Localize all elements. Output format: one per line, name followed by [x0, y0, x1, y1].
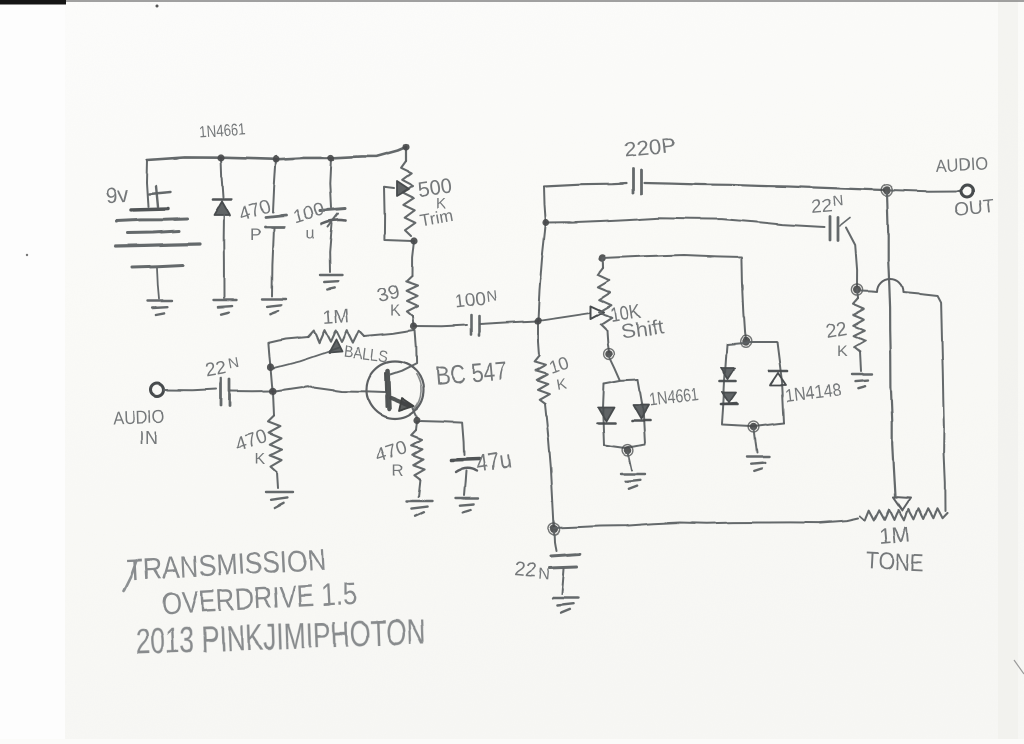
svg-text:AUDIO: AUDIO [112, 406, 165, 428]
svg-text:100: 100 [453, 289, 487, 313]
svg-text:22: 22 [824, 319, 848, 343]
svg-text:R: R [392, 463, 404, 480]
svg-text:u: u [306, 225, 315, 242]
svg-text:22: 22 [514, 558, 538, 582]
svg-text:47u: 47u [474, 446, 512, 478]
svg-text:22: 22 [203, 358, 227, 382]
svg-text:N: N [538, 566, 551, 584]
svg-text:K: K [255, 451, 266, 468]
svg-text:BC 547: BC 547 [434, 355, 508, 391]
svg-text:22: 22 [811, 195, 834, 218]
svg-text:K: K [390, 303, 401, 320]
svg-text:N: N [832, 192, 844, 210]
svg-text:N: N [486, 288, 499, 306]
svg-text:TONE: TONE [866, 547, 924, 577]
svg-text:K: K [837, 343, 848, 360]
svg-text:9v: 9v [104, 182, 130, 209]
svg-text:P: P [250, 225, 261, 244]
svg-text:IN: IN [139, 428, 159, 448]
svg-text:OUT: OUT [953, 196, 995, 221]
svg-text:1N4661: 1N4661 [198, 120, 246, 142]
svg-text:AUDIO: AUDIO [935, 153, 988, 176]
svg-text:1M: 1M [878, 521, 911, 549]
svg-text:1M: 1M [322, 306, 350, 329]
